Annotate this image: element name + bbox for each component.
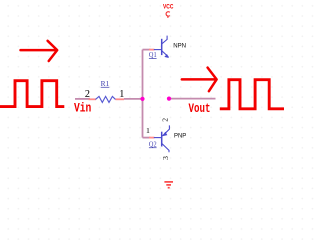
output signal arrow: [182, 68, 217, 92]
svg-text:VCC: VCC: [163, 3, 173, 10]
resistor R1 body: [96, 96, 116, 102]
wire resistor to base junction: [124, 98, 143, 100]
ground symbol: [164, 182, 173, 188]
svg-text:1: 1: [119, 89, 124, 100]
wire Vin to resistor: [75, 98, 90, 100]
wire to Q2 base: [143, 137, 151, 139]
svg-text:Vout: Vout: [189, 101, 211, 116]
input square wave: [0, 81, 64, 107]
svg-text:2: 2: [161, 118, 170, 122]
resistor R1 pin 1 stub: [116, 98, 125, 100]
input signal arrow: [21, 41, 58, 61]
svg-text:R1: R1: [101, 79, 110, 88]
svg-text:Q1: Q1: [149, 51, 157, 59]
svg-text:NPN: NPN: [173, 43, 186, 50]
svg-text:3: 3: [161, 156, 170, 160]
resistor R1 pin 2 stub: [89, 98, 97, 100]
transistor Q2 base pin stub: [149, 137, 155, 139]
transistor Q1 NPN: [154, 36, 169, 58]
output wire: [169, 98, 216, 100]
svg-text:PNP: PNP: [174, 132, 186, 139]
svg-text:Vin: Vin: [74, 101, 91, 116]
svg-text:1: 1: [146, 126, 150, 135]
power port VCC circle symbol: [166, 12, 170, 18]
wire to Q1 base: [143, 49, 151, 51]
svg-text:2: 2: [85, 89, 90, 100]
svg-text:Q2: Q2: [149, 140, 157, 148]
transistor Q2 PNP: [154, 125, 170, 152]
junction dot at base bus: [140, 97, 144, 101]
junction dot at output: [167, 97, 171, 101]
transistor Q1 base pin stub: [149, 49, 155, 51]
wire vertical base bus: [142, 50, 144, 138]
output square wave: [220, 80, 286, 109]
